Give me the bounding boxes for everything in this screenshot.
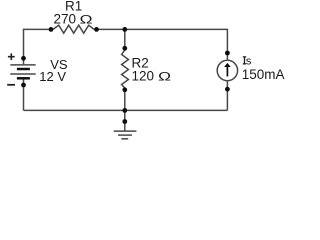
terminal dot battery top — [21, 56, 26, 61]
current source Is circle — [217, 60, 237, 80]
terminal dot R2 top — [122, 46, 127, 51]
svg-text:Ω: Ω — [158, 70, 171, 84]
ground bar 3 — [121, 138, 128, 140]
wire right vertical lower (from source) — [226, 81, 228, 111]
current source arrow head — [224, 63, 231, 67]
svg-text:270: 270 — [54, 11, 77, 26]
wire R2 branch lower — [124, 88, 126, 110]
battery plus sign — [8, 53, 15, 60]
wire ground stub — [124, 110, 126, 130]
wire R2 branch upper — [124, 29, 126, 50]
ground bar 1 — [114, 130, 137, 132]
battery VS short plate 2 — [17, 68, 30, 71]
resistor R2 zigzag — [122, 50, 129, 88]
terminal dot R1 right — [94, 27, 99, 32]
svg-text:Ω: Ω — [80, 13, 93, 27]
battery minus sign — [7, 84, 15, 86]
battery VS short plate 4 — [17, 77, 30, 80]
wire top horizontal right segment — [97, 28, 228, 30]
terminal dot source top — [225, 51, 230, 56]
label Is : seriffed I drawn — [243, 57, 246, 64]
terminal dot R2 bottom — [122, 87, 127, 92]
terminal dot source bottom — [225, 87, 230, 92]
junction dot top wire / R2 — [122, 27, 127, 32]
terminal dot battery bottom — [21, 83, 26, 88]
terminal dot R1 left — [49, 27, 54, 32]
wire top horizontal left segment — [24, 28, 52, 30]
wire right vertical upper (to source) — [226, 29, 228, 61]
wire left vertical upper (to battery) — [23, 29, 25, 64]
ground bar 2 — [118, 134, 132, 136]
wire left vertical lower (from battery) — [23, 79, 25, 110]
svg-text:120: 120 — [132, 68, 155, 83]
svg-text:12 V: 12 V — [39, 69, 66, 84]
wire bottom horizontal — [24, 109, 228, 111]
svg-text:150mA: 150mA — [242, 67, 285, 82]
resistor R1 zigzag — [53, 25, 94, 33]
svg-text:s: s — [246, 55, 252, 67]
terminal dot ground — [122, 119, 127, 124]
current source arrow shaft — [226, 66, 228, 77]
battery VS long plate 1 — [10, 64, 35, 66]
junction dot bottom wire / ground — [122, 108, 127, 113]
battery VS long plate 3 — [10, 73, 35, 75]
